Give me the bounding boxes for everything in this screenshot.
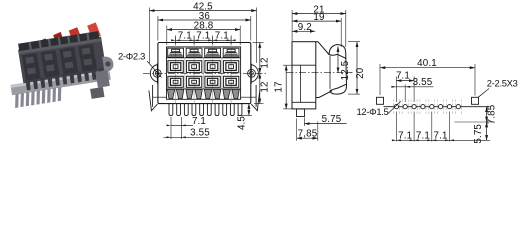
side right edge (345, 58, 348, 84)
front right hole (248, 69, 256, 77)
photo faint pins below base (13, 87, 63, 108)
dim 7.1 fp (396, 80, 414, 82)
side flange (292, 42, 316, 109)
dim 40.1 (379, 64, 381, 95)
photo right lower block (95, 70, 109, 88)
svg-text:4.5: 4.5 (237, 116, 248, 130)
dim 21 (291, 10, 293, 41)
dim 4.5 (237, 115, 252, 117)
dim 12.5 (337, 47, 339, 73)
front teeth top line (167, 88, 241, 90)
svg-text:5.75: 5.75 (322, 114, 342, 125)
front divider lines (185, 58, 222, 89)
front centreline (143, 72, 266, 74)
front view outline (149, 43, 260, 111)
photo right foot (90, 87, 104, 99)
dim 17 (283, 64, 293, 66)
svg-text:3.55: 3.55 (190, 128, 210, 139)
dim 36 (157, 16, 159, 41)
product photo group (3, 21, 118, 112)
front shelf line (167, 57, 241, 59)
front left hole (153, 69, 161, 77)
side view outline (292, 42, 347, 117)
dim 12 lower right (254, 103, 264, 105)
side foot pin (297, 109, 305, 117)
side centreline (287, 72, 353, 74)
svg-text:7.1: 7.1 (196, 31, 210, 42)
dim 9.2 (292, 30, 315, 32)
photo red button tips (38, 38, 50, 50)
svg-text:7.1: 7.1 (398, 130, 412, 141)
dim 7.1 x3 top (176, 36, 232, 45)
front left ear (150, 65, 158, 83)
svg-text:40.1: 40.1 (417, 58, 437, 69)
svg-text:12-Φ1.5: 12-Φ1.5 (357, 106, 389, 117)
footprint main line (384, 106, 490, 108)
side top slant (316, 42, 329, 55)
footprint hole hidden lines (393, 100, 461, 115)
side bottom beak (330, 84, 347, 94)
dim 19 (340, 18, 342, 47)
front spring buttons (168, 48, 239, 57)
dim 7.1x3 fp bottom (396, 139, 490, 141)
svg-text:7.1: 7.1 (434, 130, 448, 141)
dim 7.85 fp (486, 107, 488, 122)
dim 5.75 side (303, 118, 305, 127)
front windows (168, 61, 239, 88)
front recess (167, 47, 241, 99)
front bottom teeth (167, 89, 239, 99)
svg-text:17: 17 (274, 81, 285, 92)
svg-text:7.1: 7.1 (178, 31, 192, 42)
svg-text:9.2: 9.2 (298, 22, 312, 33)
front left hook foot (149, 91, 158, 111)
front pole centre lines (176, 37, 232, 103)
side inner face line (329, 56, 331, 89)
photo base flange (10, 69, 110, 95)
dim 20 (348, 41, 360, 43)
side top beak (329, 45, 346, 59)
photo top wells strip (18, 31, 99, 53)
photo right ear (102, 55, 114, 72)
svg-text:12: 12 (260, 57, 271, 68)
svg-text:7.1: 7.1 (215, 31, 229, 42)
front pins (169, 104, 242, 116)
photo top face sliver (18, 38, 101, 54)
side bottom slant (316, 91, 332, 98)
svg-text:7,85: 7,85 (298, 128, 318, 139)
svg-text:12: 12 (260, 81, 271, 92)
dim 3.55 fp (393, 86, 434, 88)
dim 42.5 (148, 8, 150, 64)
dim 7.85 side (296, 119, 298, 141)
svg-text:7.1: 7.1 (396, 71, 410, 82)
dim 28.8 (166, 26, 168, 46)
dim 7.1 bottom front (170, 117, 172, 139)
dim 12 upper right (253, 42, 264, 44)
svg-text:7.1: 7.1 (192, 116, 206, 127)
svg-text:7.1: 7.1 (416, 130, 430, 141)
footprint extension lines (396, 77, 449, 142)
front side step lines (153, 96, 167, 98)
svg-text:2-2.5X3: 2-2.5X3 (487, 78, 518, 89)
photo body (18, 37, 106, 84)
footprint holes (394, 105, 460, 109)
front hole vertical centrelines (156, 64, 158, 84)
front right hook foot (251, 91, 260, 111)
dim 3.55 bottom front (164, 136, 209, 138)
svg-text:19: 19 (313, 12, 324, 23)
photo front panels (22, 44, 97, 81)
photo clamp teeth over base (25, 68, 104, 91)
front body (158, 43, 251, 104)
dim 5.75 fp (486, 122, 488, 140)
svg-text:2-Φ2.3: 2-Φ2.3 (118, 51, 145, 62)
svg-text:3.55: 3.55 (413, 77, 433, 88)
svg-text:12.5: 12.5 (340, 60, 351, 80)
svg-text:7.85: 7.85 (486, 104, 497, 124)
footprint right pad (472, 97, 479, 104)
photo window glints (25, 48, 92, 75)
footprint left pad (377, 97, 384, 104)
front right ear (251, 65, 259, 83)
svg-text:20: 20 (355, 67, 366, 79)
